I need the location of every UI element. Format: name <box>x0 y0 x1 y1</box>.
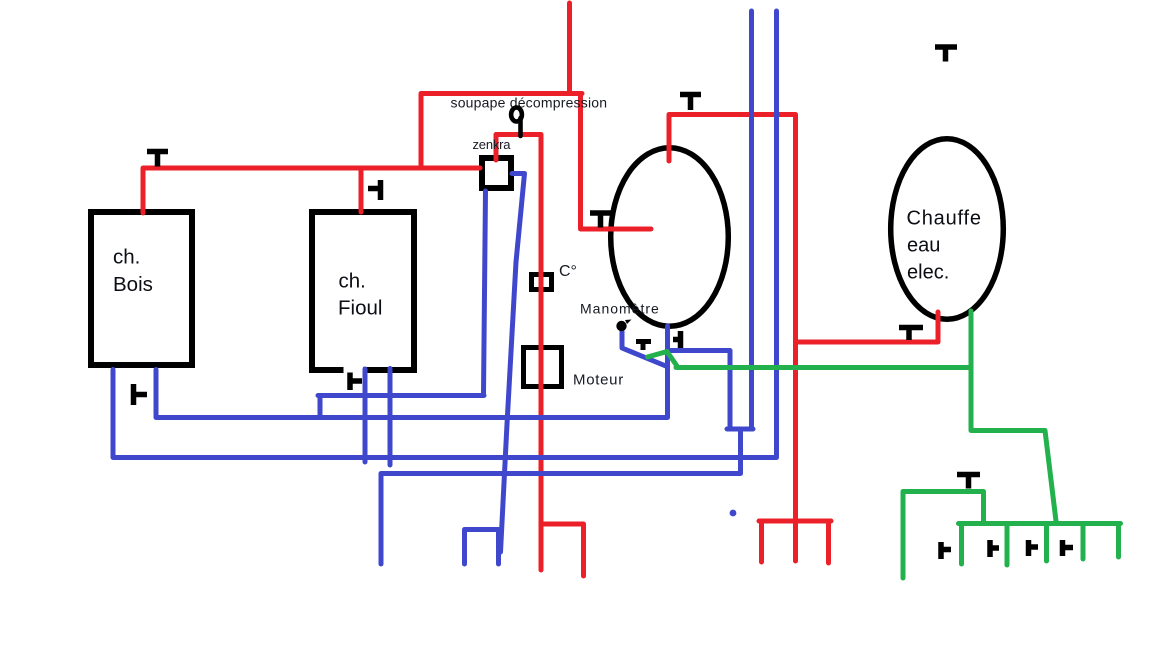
wire red bottom branch <box>541 524 584 576</box>
svg-text:zenkra: zenkra <box>473 137 512 152</box>
manometer dot <box>616 320 631 332</box>
wire green manifold <box>959 521 1121 526</box>
valve green manifold 4 <box>1063 540 1074 556</box>
tank ellipse 1 body <box>611 148 729 327</box>
wire green left branch <box>903 492 984 579</box>
wire blue zenkra bottom drop <box>484 191 486 394</box>
wire blue mid horizontal y395 <box>318 396 484 418</box>
wire green manifold drop 1 <box>959 524 964 565</box>
svg-text:ch.: ch. <box>339 270 366 293</box>
svg-text:Moteur: Moteur <box>573 372 624 389</box>
svg-text:Manomètre: Manomètre <box>580 301 660 317</box>
motor box body <box>524 348 562 387</box>
label ch. Fioul <box>338 270 382 320</box>
label Moteur <box>573 372 624 389</box>
label C° <box>559 263 577 280</box>
boiler ch. Fioul body <box>312 212 414 373</box>
wire red riser top <box>567 3 572 91</box>
wire blue lower header y473 <box>381 429 741 564</box>
valve at ch. Fioul inlet <box>368 180 381 200</box>
node blue dot <box>730 510 737 517</box>
thermostat box body <box>532 275 552 290</box>
svg-text:eau: eau <box>907 235 940 257</box>
wire blue manometer link <box>622 331 667 367</box>
valve green manifold 2 <box>990 540 999 557</box>
valve T near chauffe-eau <box>899 328 923 341</box>
svg-text:Fioul: Fioul <box>338 297 382 320</box>
valve T top right <box>935 47 957 62</box>
wire blue return header y417 <box>156 370 668 418</box>
wire green manifold drop 2 <box>1005 524 1010 566</box>
valve right of tank drain <box>673 331 681 348</box>
soupape symbol <box>511 108 522 137</box>
label zenkra <box>473 137 512 152</box>
water heater ellipse body <box>891 139 1004 320</box>
svg-text:ch.: ch. <box>113 246 140 269</box>
valve T left of tank 1 <box>590 213 611 228</box>
valve T at manometer <box>636 342 651 351</box>
valve green manifold 3 <box>1029 540 1039 556</box>
wire blue ch. Fioul outlet 2 <box>388 369 393 466</box>
wire green manifold drop 5 <box>1116 524 1121 558</box>
wire blue tank1 outlet horizontal <box>668 348 731 353</box>
wire green chauffe-eau drop <box>971 311 1056 521</box>
wire green tank1 start <box>648 352 679 368</box>
boiler ch. Bois body <box>91 212 192 365</box>
wire red zenkra to long drop <box>496 135 541 571</box>
wire red branch to chauffe-eau <box>796 312 939 342</box>
svg-text:elec.: elec. <box>907 262 949 284</box>
label Chauffe eau elec. <box>907 208 982 284</box>
valve below ch. Bois <box>134 384 148 405</box>
wire red tank1 top loop <box>669 115 796 562</box>
wire red bottom trident <box>759 521 831 563</box>
wire green manifold drop 4 <box>1081 524 1086 560</box>
wire red drop into ch. Fioul <box>359 168 364 212</box>
wire blue tank1 drain <box>665 326 670 417</box>
wire blue long riser 2 <box>774 11 779 456</box>
svg-text:Chauffe: Chauffe <box>907 208 982 230</box>
wire blue zenkra right diagonal <box>501 174 525 553</box>
svg-text:C°: C° <box>559 263 577 280</box>
wire blue bottom U <box>465 530 499 565</box>
wire green main horizontal <box>676 365 971 370</box>
label ch. Bois <box>113 246 153 297</box>
valve below ch. Fioul <box>350 373 362 391</box>
wire blue return header y457 <box>113 370 777 458</box>
svg-text:Bois: Bois <box>113 273 153 296</box>
wire red down right of soupape <box>581 95 652 229</box>
wire red top header to left drop <box>421 94 582 169</box>
wire blue long riser 1 <box>749 11 754 429</box>
valve T on green branch <box>957 475 980 489</box>
valve T above ch. Bois <box>147 152 168 167</box>
svg-text:soupape décompression: soupape décompression <box>451 95 608 111</box>
valve green manifold 1 <box>941 542 951 559</box>
wire red main supply header <box>143 168 480 213</box>
wire green manifold drop 3 <box>1044 524 1049 562</box>
valve box zenkra body <box>482 158 511 188</box>
wire blue riser1 U-jog <box>727 351 753 429</box>
wire blue ch. Fioul outlet 1 <box>363 369 368 462</box>
valve T on top header <box>680 95 701 111</box>
